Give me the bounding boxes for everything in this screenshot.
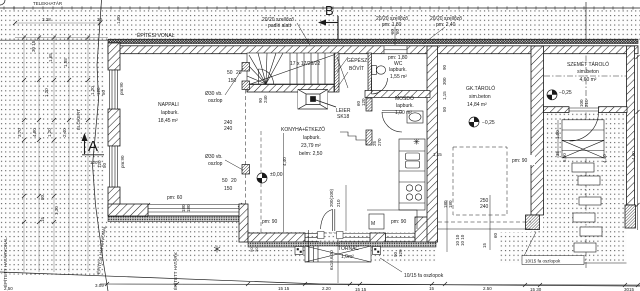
- svg-text:30 15: 30 15: [31, 40, 36, 52]
- svg-text:180: 180: [448, 200, 453, 208]
- svg-text:B: B: [325, 3, 334, 18]
- svg-text:300: 300: [442, 77, 447, 85]
- svg-text:1,85: 1,85: [63, 58, 68, 67]
- svg-text:5,00: 5,00: [562, 153, 567, 162]
- svg-text:240: 240: [224, 126, 233, 132]
- svg-text:pm: 60: pm: 60: [167, 195, 183, 201]
- svg-text:10/15 fa oszlopok: 10/15 fa oszlopok: [525, 259, 561, 264]
- svg-text:4,60 m²: 4,60 m²: [580, 77, 597, 83]
- svg-text:50: 50: [101, 89, 106, 95]
- svg-text:180: 180: [186, 204, 191, 212]
- svg-text:A: A: [88, 138, 98, 155]
- svg-text:SK18: SK18: [337, 114, 349, 120]
- svg-text:1,20: 1,20: [90, 86, 95, 95]
- svg-text:30: 30: [97, 17, 103, 22]
- svg-text:pm: 1,80: pm: 1,80: [382, 22, 402, 28]
- svg-text:MOSDÓ: MOSDÓ: [395, 95, 414, 102]
- svg-text:4,60: 4,60: [631, 151, 636, 160]
- svg-text:pm: 90: pm: 90: [512, 158, 528, 164]
- svg-text:4,40: 4,40: [282, 157, 287, 166]
- svg-text:oszlop: oszlop: [208, 161, 223, 167]
- svg-text:10/15 fa oszlopok: 10/15 fa oszlopok: [404, 273, 444, 279]
- svg-text:18,45 m²: 18,45 m²: [158, 118, 178, 124]
- svg-text:1,55 m²: 1,55 m²: [390, 74, 407, 80]
- svg-text:padló alatt: padló alatt: [268, 23, 292, 29]
- svg-text:270: 270: [377, 138, 382, 146]
- svg-text:6x16,6/30: 6x16,6/30: [329, 250, 334, 270]
- svg-text:oszlop: oszlop: [208, 98, 223, 104]
- svg-text:1,0m²: 1,0m²: [341, 254, 354, 260]
- svg-text:50: 50: [102, 162, 107, 168]
- svg-text:lapburk.: lapburk.: [303, 135, 321, 141]
- svg-text:15: 15: [482, 242, 487, 248]
- svg-text:±0,00: ±0,00: [270, 172, 283, 178]
- svg-text:sim.beton: sim.beton: [577, 69, 599, 75]
- svg-text:50: 50: [227, 70, 233, 76]
- svg-text:30: 30: [254, 247, 259, 252]
- svg-text:60: 60: [493, 232, 498, 238]
- svg-text:ÉPÍTÉSI VONAL: ÉPÍTÉSI VONAL: [137, 32, 175, 39]
- svg-text:1,20: 1,20: [44, 88, 49, 97]
- svg-text:10 10: 10 10: [460, 234, 465, 246]
- svg-text:pm: 90: pm: 90: [262, 219, 278, 225]
- svg-text:3015: 3015: [624, 287, 635, 291]
- svg-text:15: 15: [429, 286, 435, 291]
- svg-text:1,00: 1,00: [555, 130, 560, 139]
- svg-text:14,84 m²: 14,84 m²: [467, 102, 487, 108]
- svg-text:240: 240: [480, 204, 489, 210]
- svg-text:Ø30 vb.: Ø30 vb.: [205, 154, 223, 160]
- svg-text:210: 210: [336, 199, 341, 207]
- svg-text:GÉPÉSZ: GÉPÉSZ: [347, 57, 367, 64]
- svg-text:4,40: 4,40: [602, 154, 607, 163]
- svg-text:lapburk.: lapburk.: [396, 103, 414, 109]
- svg-text:150: 150: [224, 186, 233, 192]
- svg-text:ELŐKERT: ELŐKERT: [75, 109, 81, 130]
- svg-text:BŐVÍT: BŐVÍT: [349, 65, 364, 72]
- svg-text:lapburk.: lapburk.: [161, 110, 179, 116]
- svg-text:4,80: 4,80: [32, 128, 37, 137]
- svg-text:35: 35: [555, 150, 560, 156]
- svg-text:2.20: 2.20: [322, 286, 331, 291]
- svg-text:1,15: 1,15: [433, 152, 442, 157]
- svg-text:20: 20: [231, 178, 237, 184]
- svg-text:1,15: 1,15: [442, 91, 447, 100]
- svg-text:50: 50: [442, 106, 447, 112]
- svg-text:80: 80: [40, 194, 45, 200]
- svg-text:15 15: 15 15: [355, 287, 367, 291]
- svg-text:2.50: 2.50: [483, 286, 492, 291]
- svg-text:150: 150: [228, 78, 237, 84]
- svg-text:M: M: [371, 221, 375, 227]
- svg-text:pm:90: pm:90: [119, 82, 124, 95]
- svg-text:90: 90: [442, 64, 447, 70]
- svg-text:1,30: 1,30: [54, 206, 59, 215]
- svg-text:15 15: 15 15: [278, 286, 290, 291]
- svg-text:TELEKHATÁR: TELEKHATÁR: [33, 0, 63, 6]
- svg-text:23,79 m²: 23,79 m²: [301, 143, 321, 149]
- svg-text:240: 240: [263, 95, 268, 103]
- svg-text:120: 120: [361, 98, 366, 106]
- svg-text:pm: 90: pm: 90: [391, 219, 407, 225]
- svg-text:60: 60: [395, 28, 400, 34]
- svg-text:1,00 m²: 1,00 m²: [395, 110, 412, 116]
- svg-text:−0,25: −0,25: [482, 120, 495, 126]
- svg-text:1,00: 1,00: [116, 15, 121, 24]
- svg-text:3.09: 3.09: [95, 283, 104, 288]
- svg-text:NAPPALI: NAPPALI: [158, 102, 179, 108]
- svg-text:lapburk.: lapburk.: [389, 67, 407, 73]
- svg-text:sim.beton: sim.beton: [469, 94, 491, 100]
- svg-text:3.28: 3.28: [42, 17, 51, 22]
- svg-text:belm: 2,50: belm: 2,50: [299, 151, 323, 157]
- svg-text:pm: 2,40: pm: 2,40: [436, 22, 456, 28]
- svg-text:17 x 17/29/22: 17 x 17/29/22: [290, 61, 321, 67]
- svg-text:ÉPÍTETT HATÁRVONAL: ÉPÍTETT HATÁRVONAL: [2, 237, 8, 287]
- svg-text:1,65: 1,65: [48, 53, 53, 62]
- svg-text:SZEMÉT TÁROLÓ: SZEMÉT TÁROLÓ: [567, 61, 609, 68]
- svg-text:15 30: 15 30: [530, 287, 542, 291]
- svg-text:3,70: 3,70: [17, 128, 22, 137]
- svg-text:−0,25: −0,25: [559, 90, 572, 96]
- svg-text:1,20: 1,20: [47, 128, 52, 137]
- svg-text:210: 210: [584, 99, 589, 107]
- svg-text:50: 50: [222, 178, 228, 184]
- svg-text:TORNÁC: TORNÁC: [338, 245, 359, 252]
- svg-text:GK.TÁROLÓ: GK.TÁROLÓ: [466, 85, 495, 92]
- svg-text:200(100): 200(100): [329, 188, 334, 207]
- svg-text:Ø30 vb.: Ø30 vb.: [205, 91, 223, 97]
- svg-text:2,40: 2,40: [62, 128, 67, 137]
- svg-text:120: 120: [398, 249, 403, 257]
- svg-text:15: 15: [40, 216, 45, 222]
- svg-text:pm:90: pm:90: [120, 155, 125, 168]
- svg-text:2,50: 2,50: [4, 286, 13, 291]
- svg-text:KONYHA+ÉTKEZŐ: KONYHA+ÉTKEZŐ: [281, 126, 325, 133]
